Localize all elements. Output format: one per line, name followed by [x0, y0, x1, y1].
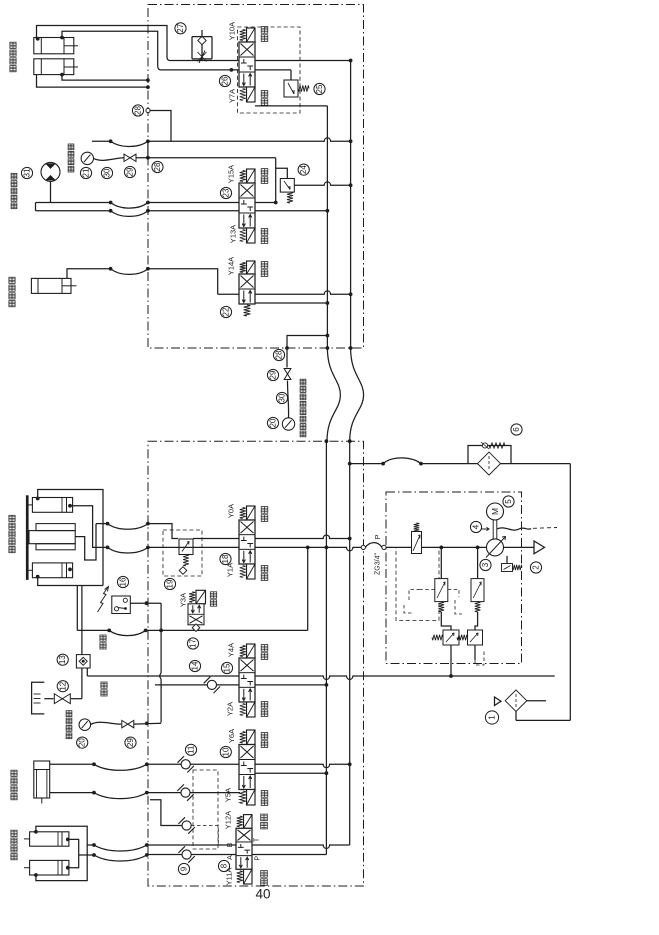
callout 30b	[276, 392, 287, 403]
wire trunk seat-adv	[170, 59, 353, 63]
svg-text:B: B	[227, 842, 234, 847]
label 顶进	[261, 814, 268, 829]
svg-text:21: 21	[82, 168, 91, 177]
svg-text:Y7A: Y7A	[228, 89, 237, 103]
callout 6	[511, 424, 522, 435]
callout 29a	[124, 166, 135, 177]
wire 29 to sensing	[134, 722, 161, 726]
check valve bypass 27	[192, 30, 212, 63]
callout 12	[57, 681, 68, 692]
relief bottom B	[457, 612, 483, 645]
wire 顶出 caps	[66, 838, 96, 870]
label Y3A	[179, 593, 188, 607]
label 链料泵马达	[11, 173, 17, 208]
callout 30a	[101, 167, 112, 178]
wire 移模 a	[50, 762, 149, 770]
callout 20b	[267, 417, 278, 428]
label 射退	[261, 262, 268, 277]
svg-text:25: 25	[315, 84, 324, 93]
svg-text:4: 4	[472, 524, 481, 529]
callout 28c	[273, 349, 284, 360]
wire trunk 845	[147, 845, 350, 848]
callout 9	[178, 863, 189, 874]
svg-text:20: 20	[78, 738, 87, 747]
wire 顶出 top loop	[34, 826, 96, 847]
svg-text:Y13A: Y13A	[229, 225, 238, 243]
hose clamp 523	[108, 522, 150, 530]
hose 顶出 b	[94, 853, 149, 861]
pilot dashed drains	[404, 590, 462, 615]
label 走液	[261, 645, 268, 660]
pilot valve A	[435, 547, 448, 612]
callout 17	[187, 638, 198, 649]
callout 5	[503, 496, 514, 507]
filter 6 bypass	[468, 442, 511, 464]
pilot valve B	[471, 547, 484, 612]
callout 26	[219, 75, 230, 86]
valve Y15A Y13A	[239, 169, 255, 243]
reducing valve	[412, 523, 422, 554]
wire trunk seat-ret	[161, 68, 291, 72]
wire 顶出 bottom loop	[34, 845, 87, 881]
gauge 20 mid	[282, 418, 294, 430]
label ZG3/4	[375, 553, 382, 575]
wire 335 line	[285, 334, 329, 350]
svg-text:T: T	[254, 837, 261, 842]
svg-text:6: 6	[512, 427, 521, 432]
coupling	[493, 520, 497, 539]
port P circle	[373, 534, 386, 549]
cylinder group A cyl1	[34, 38, 78, 54]
valve 29 mid	[284, 348, 291, 418]
wire Y14A port line	[255, 301, 329, 305]
relief drains	[451, 645, 484, 676]
callout 31	[21, 167, 32, 178]
svg-text:28: 28	[275, 350, 284, 359]
wire 增压 line	[77, 629, 307, 636]
callout 29b	[267, 369, 278, 380]
label Y0A	[227, 504, 236, 518]
svg-text:28: 28	[153, 162, 162, 171]
check valve 11	[178, 756, 194, 772]
wire bottom trunk A	[325, 439, 329, 854]
svg-text:27: 27	[176, 23, 185, 32]
svg-text:ZG3/4": ZG3/4"	[375, 553, 382, 575]
valve Y0A Y1A	[239, 506, 255, 579]
switch 16 arrow	[98, 587, 109, 613]
power unit dashed box	[386, 492, 522, 664]
clamp wiring top	[38, 490, 103, 586]
shuttle box 13	[76, 655, 90, 668]
callout 20c	[77, 737, 88, 748]
valve Y10A Y7A dashed envelope	[238, 27, 301, 113]
wire box13 out	[82, 668, 87, 699]
svg-text:16: 16	[119, 577, 128, 586]
label Y11A	[225, 868, 234, 886]
valve 12	[44, 694, 82, 704]
check valve on 685	[204, 677, 220, 693]
svg-text:18: 18	[221, 554, 230, 563]
callout 24	[298, 164, 309, 175]
label 增压	[100, 635, 106, 649]
callout 18	[220, 553, 231, 564]
wire filter line	[348, 458, 570, 466]
clamp wiring mid	[75, 522, 109, 560]
label P2	[255, 856, 262, 861]
svg-text:29: 29	[126, 167, 135, 176]
svg-text:P: P	[373, 534, 382, 539]
svg-text:17: 17	[189, 639, 198, 648]
wire T return	[87, 674, 554, 679]
label Y5A	[223, 788, 232, 802]
svg-text:Y11A: Y11A	[225, 868, 234, 886]
svg-text:Y14A: Y14A	[227, 257, 236, 275]
svg-text:Y6A: Y6A	[227, 729, 236, 743]
hose outer trunk	[350, 348, 364, 441]
svg-text:22: 22	[222, 307, 231, 316]
label Y10A	[228, 22, 237, 40]
svg-text:13: 13	[58, 655, 67, 664]
callout 13	[57, 654, 68, 665]
label 储料b	[261, 229, 268, 244]
wire unload drop	[306, 546, 310, 631]
valve Y14A	[239, 261, 255, 316]
pressure switch 16	[112, 596, 131, 614]
svg-text:29: 29	[269, 370, 278, 379]
wire gauge21 to valve29	[94, 158, 124, 161]
node 28 port	[146, 108, 171, 141]
wire sensing vertical	[159, 603, 163, 722]
callout 19	[164, 578, 175, 589]
boundary box bottom (machine plate)	[148, 441, 364, 886]
label 开模	[261, 507, 268, 522]
wire motor ports	[36, 181, 51, 210]
wire bottom trunk B	[348, 439, 352, 845]
wire 注料 line	[67, 267, 218, 294]
filter 6 diamond	[478, 452, 501, 475]
callout 25	[314, 83, 325, 94]
label Y6A	[227, 729, 236, 743]
label 座退	[261, 91, 268, 106]
valve Y12A Y11A	[236, 815, 252, 884]
label 增压b	[261, 702, 268, 717]
svg-text:30: 30	[103, 168, 112, 177]
wire trunk 792	[147, 792, 240, 794]
clamp wiring rod	[70, 506, 109, 550]
clamp cyl top	[28, 497, 72, 513]
pump relief small	[502, 556, 523, 572]
svg-text:31: 31	[23, 168, 32, 177]
clamp cyl mid	[29, 524, 75, 550]
svg-text:11: 11	[187, 745, 196, 754]
cylinder 顶出 B	[24, 860, 69, 875]
boundary box top (machine plate)	[148, 5, 364, 349]
wire trunk 141	[92, 138, 353, 147]
wire trunk 855	[147, 854, 327, 856]
hose clamp 547	[108, 546, 150, 554]
label Y12A	[223, 811, 232, 829]
wire 685 line	[155, 683, 328, 687]
label Y2A	[226, 702, 235, 716]
hydraulic motor 31	[41, 162, 60, 181]
cylinder 移模	[34, 761, 50, 804]
svg-text:Y2A: Y2A	[226, 702, 235, 716]
wire switch out	[130, 601, 161, 605]
svg-text:10: 10	[221, 747, 230, 756]
wire valve29 out	[136, 141, 276, 159]
wire gauge20 to 29	[91, 722, 122, 724]
wire P line	[386, 546, 487, 550]
pump 3	[486, 537, 506, 558]
label 顶退	[261, 871, 268, 886]
wire tank drop	[516, 464, 570, 721]
label Y4A	[227, 643, 236, 657]
callout 28b	[152, 161, 163, 172]
svg-text:Y15A: Y15A	[227, 165, 236, 183]
svg-text:30: 30	[278, 393, 287, 402]
label 链料背压	[68, 144, 74, 172]
svg-text:14: 14	[191, 661, 200, 670]
callout 23	[220, 187, 231, 198]
wire 移模 b	[50, 791, 149, 799]
label T	[254, 837, 261, 842]
label 失压	[210, 592, 216, 606]
wire trunk 538	[193, 535, 352, 540]
svg-text:1: 1	[488, 715, 497, 720]
wire right trunk inner	[326, 106, 330, 350]
label 锁模压力	[66, 711, 72, 739]
callout 2	[530, 562, 541, 573]
label 废白油缸	[10, 42, 16, 72]
pilot dashed box	[396, 547, 439, 620]
wire cyl A return	[36, 36, 150, 82]
label 总压力&座退压力	[300, 379, 306, 437]
callout 3	[480, 559, 491, 570]
hose 顶出 a	[94, 843, 149, 851]
svg-text:Y0A: Y0A	[227, 504, 236, 518]
label 合模油缸组	[9, 515, 15, 552]
relief valve 24	[276, 168, 295, 203]
wire trunk 764	[147, 762, 352, 767]
clamp plate	[26, 496, 28, 580]
label 型入	[261, 791, 268, 806]
page number 40	[255, 887, 270, 902]
port P node	[361, 543, 382, 550]
callout 22	[220, 306, 231, 317]
check valve 9b	[178, 846, 194, 862]
label 注料油缸	[9, 277, 15, 307]
svg-text:Y3A: Y3A	[179, 593, 188, 607]
svg-text:Y10A: Y10A	[228, 22, 237, 40]
wire Y7A port line	[255, 105, 327, 107]
callout 4	[470, 521, 481, 532]
wire trunk 202	[36, 201, 276, 209]
svg-text:40: 40	[255, 887, 270, 902]
callout 1	[485, 711, 498, 724]
svg-text:19: 19	[166, 579, 175, 588]
label Y14A	[227, 257, 236, 275]
callout 8	[218, 860, 229, 871]
svg-text:8: 8	[220, 863, 229, 868]
svg-text:20: 20	[269, 418, 278, 427]
suction strainer 2	[504, 541, 545, 554]
svg-text:15: 15	[223, 663, 232, 672]
svg-text:M: M	[490, 508, 500, 515]
label A	[227, 855, 234, 860]
valve Y3A	[188, 590, 206, 631]
label Y7A	[228, 89, 237, 103]
shaft squiggle	[497, 528, 557, 531]
svg-text:A: A	[227, 855, 234, 860]
wire trunk 294	[218, 291, 353, 296]
svg-text:Y4A: Y4A	[227, 643, 236, 657]
wire trunk 210	[36, 209, 330, 217]
relief valve 25	[284, 70, 309, 97]
valve 29 bottom	[122, 720, 134, 727]
wire cyl A bottom	[37, 75, 150, 89]
callout 15	[221, 662, 232, 673]
svg-text:3: 3	[481, 562, 490, 567]
svg-text:12: 12	[58, 681, 67, 690]
label 座进	[261, 27, 268, 42]
svg-text:2: 2	[532, 565, 541, 570]
callout 11	[185, 744, 196, 755]
return filter diamond	[505, 690, 546, 712]
callout 10	[220, 746, 231, 757]
label Y15A	[227, 165, 236, 183]
wire cyl A outer loop	[37, 26, 171, 61]
return marker triangle	[495, 697, 502, 706]
drive arrow	[479, 527, 489, 530]
cylinder group A cyl2	[34, 59, 78, 75]
cylinder 注料	[31, 278, 76, 293]
cylinder 顶出 A	[24, 832, 69, 846]
valve Y6A Y5A	[239, 730, 255, 805]
clamp wiring bot	[38, 578, 103, 586]
callout 16	[117, 576, 128, 587]
relief 19 check	[179, 567, 187, 575]
gauge 21	[81, 152, 93, 164]
label Y1A	[226, 563, 235, 577]
wire cyl A inner loop	[62, 31, 161, 70]
callout 29c	[125, 737, 136, 748]
gauge 20 bottom	[79, 719, 91, 731]
clamp cyl bot	[28, 563, 72, 579]
valve 29 top	[124, 154, 136, 161]
svg-text:Y1A: Y1A	[226, 563, 235, 577]
valve Y10A Y7A	[239, 28, 255, 102]
svg-text:29: 29	[126, 738, 135, 747]
svg-text:28: 28	[134, 106, 143, 115]
svg-text:P: P	[255, 856, 262, 861]
relief bottom A	[432, 612, 459, 645]
label 储料a	[261, 169, 268, 184]
motor M 5	[487, 503, 504, 520]
callout 28a	[132, 105, 143, 116]
relief 19 dashed box	[163, 530, 202, 576]
svg-text:9: 9	[180, 866, 189, 871]
pilot dashed box 9-11	[193, 770, 218, 849]
valve Y4A Y2A	[239, 644, 255, 717]
wire sensing drop	[274, 158, 278, 205]
hose inner trunk	[327, 348, 340, 441]
svg-text:23: 23	[222, 188, 231, 197]
clamp downlegs	[77, 586, 82, 655]
label Y13A	[229, 225, 238, 243]
svg-text:24: 24	[299, 165, 308, 174]
check valve on 792	[177, 784, 193, 800]
label 移模油缸	[11, 770, 17, 800]
label 型出	[261, 733, 268, 748]
wire trunk 185	[294, 182, 352, 187]
svg-text:5: 5	[504, 499, 513, 504]
label 顶出油缸	[11, 830, 17, 860]
check valve 9a	[150, 800, 218, 845]
svg-text:Y5A: Y5A	[223, 788, 232, 802]
wire 523 to 538	[148, 524, 178, 539]
tank 12	[32, 682, 45, 714]
svg-text:Y12A: Y12A	[223, 811, 232, 829]
label 合模	[261, 566, 268, 581]
wire trunk 547 main	[148, 546, 361, 551]
wire 773 line	[255, 771, 328, 775]
svg-text:26: 26	[221, 76, 230, 85]
label B	[227, 842, 234, 847]
wire right trunk outer	[349, 61, 353, 350]
label 主液	[101, 682, 107, 696]
callout 21	[80, 167, 91, 178]
relief 19 valve	[179, 539, 193, 566]
callout 14	[189, 660, 200, 671]
callout 27	[175, 23, 186, 34]
